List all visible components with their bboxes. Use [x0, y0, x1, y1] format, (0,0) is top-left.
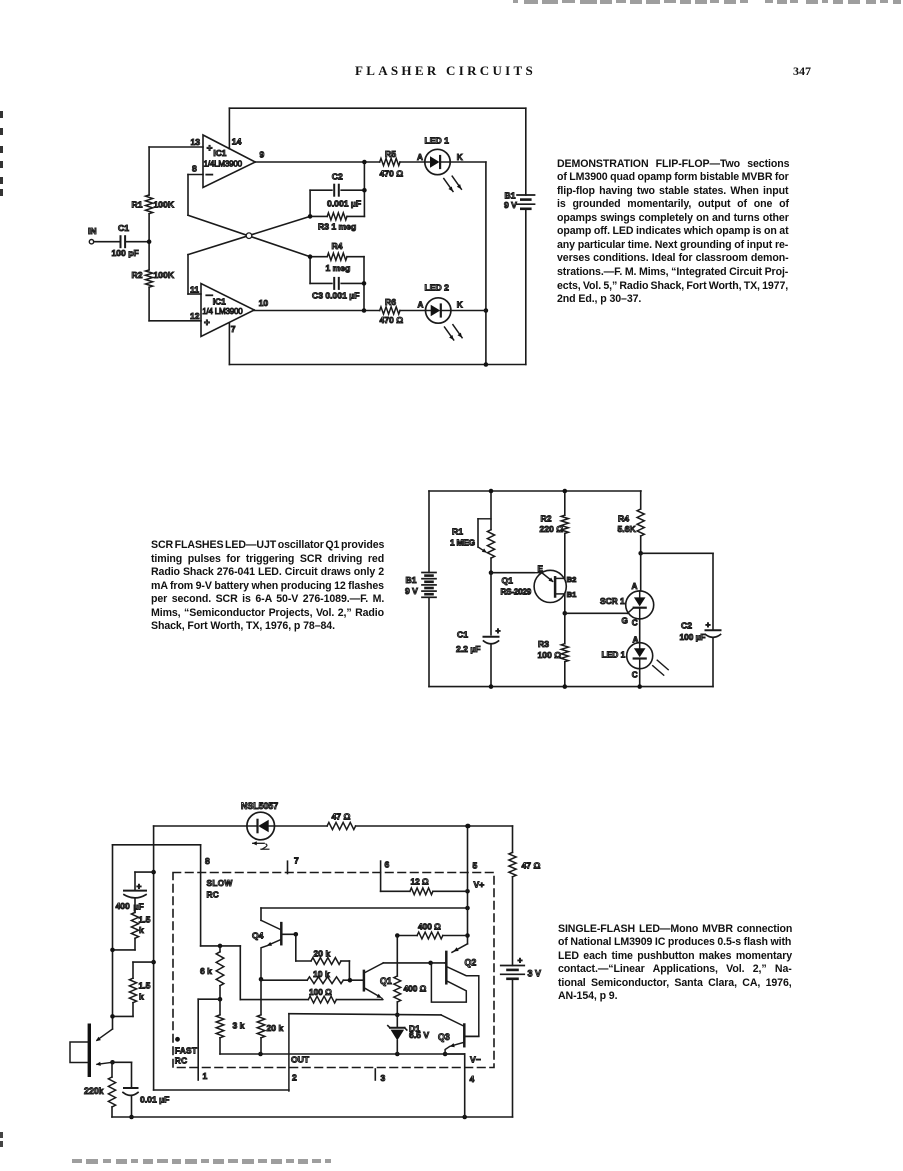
- svg-text:3 V: 3 V: [528, 969, 542, 979]
- svg-text:13: 13: [191, 137, 201, 147]
- svg-text:1: 1: [203, 1071, 208, 1081]
- svg-text:3: 3: [381, 1073, 386, 1083]
- svg-text:10 k: 10 k: [313, 969, 330, 979]
- svg-text:LED 1: LED 1: [602, 650, 626, 660]
- svg-text:R3: R3: [538, 639, 549, 649]
- svg-text:100 Ω: 100 Ω: [309, 987, 332, 997]
- svg-text:400 Ω: 400 Ω: [404, 984, 427, 994]
- svg-text:3 k: 3 k: [233, 1021, 245, 1031]
- svg-text:1 meg: 1 meg: [326, 263, 351, 273]
- svg-text:1.5: 1.5: [139, 981, 151, 991]
- svg-text:K: K: [457, 153, 463, 162]
- svg-text:C2: C2: [681, 620, 692, 630]
- svg-text:2: 2: [292, 1073, 297, 1083]
- svg-text:A: A: [417, 153, 423, 162]
- svg-text:8: 8: [192, 164, 197, 174]
- svg-text:G: G: [622, 617, 628, 626]
- svg-text:RS-2029: RS-2029: [501, 588, 532, 597]
- svg-text:470 Ω: 470 Ω: [380, 169, 404, 179]
- svg-text:9 V: 9 V: [405, 586, 418, 596]
- svg-text:SLOW: SLOW: [207, 878, 233, 888]
- svg-text:220 Ω: 220 Ω: [540, 524, 564, 534]
- svg-text:R2: R2: [132, 270, 143, 280]
- svg-text:C2: C2: [332, 171, 343, 181]
- svg-text:0.001 µF: 0.001 µF: [327, 198, 361, 208]
- svg-text:R4: R4: [618, 514, 629, 524]
- svg-text:C1: C1: [457, 630, 468, 640]
- svg-text:LED 1: LED 1: [425, 135, 450, 145]
- svg-text:6.5 V: 6.5 V: [409, 1030, 429, 1040]
- svg-text:R1: R1: [452, 527, 463, 537]
- svg-text:R4: R4: [332, 241, 343, 251]
- svg-text:+: +: [706, 620, 711, 630]
- svg-text:100 µF: 100 µF: [680, 632, 706, 642]
- svg-text:5.6K: 5.6K: [618, 524, 637, 534]
- svg-text:8: 8: [205, 856, 210, 866]
- svg-text:Q1: Q1: [380, 976, 392, 986]
- svg-text:400: 400: [116, 901, 131, 911]
- svg-text:7: 7: [231, 324, 236, 334]
- svg-text:V+: V+: [474, 880, 485, 890]
- svg-text:IC1: IC1: [213, 296, 226, 306]
- svg-text:100 pF: 100 pF: [112, 248, 139, 258]
- svg-text:6 k: 6 k: [200, 966, 212, 976]
- svg-text:IC1: IC1: [213, 148, 226, 158]
- svg-text:C3 0.001 µF: C3 0.001 µF: [312, 291, 359, 301]
- svg-text:Q3: Q3: [438, 1032, 450, 1042]
- svg-text:R5: R5: [385, 149, 396, 159]
- svg-text:B1: B1: [567, 590, 577, 599]
- svg-text:RC: RC: [175, 1056, 188, 1066]
- svg-text:C: C: [632, 671, 638, 680]
- svg-text:9: 9: [260, 149, 265, 159]
- svg-text:B2: B2: [567, 575, 577, 584]
- svg-text:1/4LM3900: 1/4LM3900: [204, 160, 243, 169]
- svg-text:OUT: OUT: [291, 1055, 310, 1065]
- svg-text:6: 6: [385, 860, 390, 870]
- svg-text:Q2: Q2: [465, 958, 477, 968]
- svg-text:9 V: 9 V: [504, 200, 517, 210]
- svg-text:47 Ω: 47 Ω: [332, 812, 351, 822]
- svg-text:LED 2: LED 2: [425, 283, 450, 293]
- svg-text:1/4 LM3900: 1/4 LM3900: [202, 307, 243, 316]
- svg-text:Q4: Q4: [252, 931, 264, 941]
- svg-text:47 Ω: 47 Ω: [522, 861, 541, 871]
- svg-text:IN: IN: [88, 226, 97, 236]
- svg-text:K: K: [457, 301, 463, 310]
- svg-text:4: 4: [470, 1074, 475, 1084]
- svg-text:100 Ω: 100 Ω: [538, 650, 562, 660]
- svg-text:100K: 100K: [154, 199, 175, 209]
- svg-text:C1: C1: [118, 223, 129, 233]
- svg-text:7: 7: [294, 856, 299, 866]
- svg-text:R3 1 meg: R3 1 meg: [318, 222, 356, 232]
- svg-text:+: +: [204, 318, 210, 329]
- svg-text:1.5: 1.5: [139, 915, 151, 925]
- svg-text:0.01 µF: 0.01 µF: [140, 1095, 169, 1105]
- svg-text:A: A: [418, 301, 424, 310]
- svg-text:R2: R2: [541, 514, 552, 524]
- svg-text:470 Ω: 470 Ω: [380, 315, 404, 325]
- svg-text:RC: RC: [207, 890, 220, 900]
- svg-text:SCR 1: SCR 1: [600, 596, 625, 606]
- svg-text:+: +: [137, 881, 142, 891]
- svg-text:E: E: [538, 565, 544, 574]
- svg-text:20 k: 20 k: [267, 1023, 284, 1033]
- svg-text:100K: 100K: [154, 270, 175, 280]
- svg-text:2.2 µF: 2.2 µF: [456, 644, 481, 654]
- svg-text:R1: R1: [132, 199, 143, 209]
- svg-text:+: +: [518, 955, 523, 965]
- svg-text:400 Ω: 400 Ω: [418, 922, 441, 932]
- svg-text:1 MEG: 1 MEG: [450, 538, 475, 548]
- svg-text:C: C: [632, 619, 638, 628]
- svg-text:FAST: FAST: [175, 1046, 197, 1056]
- svg-text:12: 12: [190, 311, 200, 321]
- svg-text:12 Ω: 12 Ω: [411, 877, 430, 887]
- svg-text:14: 14: [232, 137, 242, 147]
- svg-text:k: k: [139, 992, 144, 1002]
- svg-text:+: +: [496, 626, 501, 636]
- svg-text:B1: B1: [406, 575, 417, 585]
- svg-text:A: A: [632, 582, 638, 591]
- svg-text:20 k: 20 k: [314, 949, 331, 959]
- svg-text:10: 10: [259, 298, 269, 308]
- svg-text:5: 5: [473, 860, 478, 870]
- svg-text:+: +: [207, 144, 213, 155]
- svg-text:A: A: [633, 636, 639, 645]
- svg-text:R6: R6: [385, 297, 396, 307]
- svg-text:V−: V−: [470, 1055, 481, 1065]
- svg-text:NSL5057: NSL5057: [241, 801, 278, 811]
- svg-text:220k: 220k: [84, 1086, 104, 1096]
- svg-text:11: 11: [190, 284, 199, 294]
- svg-text:B1: B1: [505, 191, 516, 201]
- svg-text:Q1: Q1: [502, 576, 514, 586]
- svg-text:k: k: [139, 925, 144, 935]
